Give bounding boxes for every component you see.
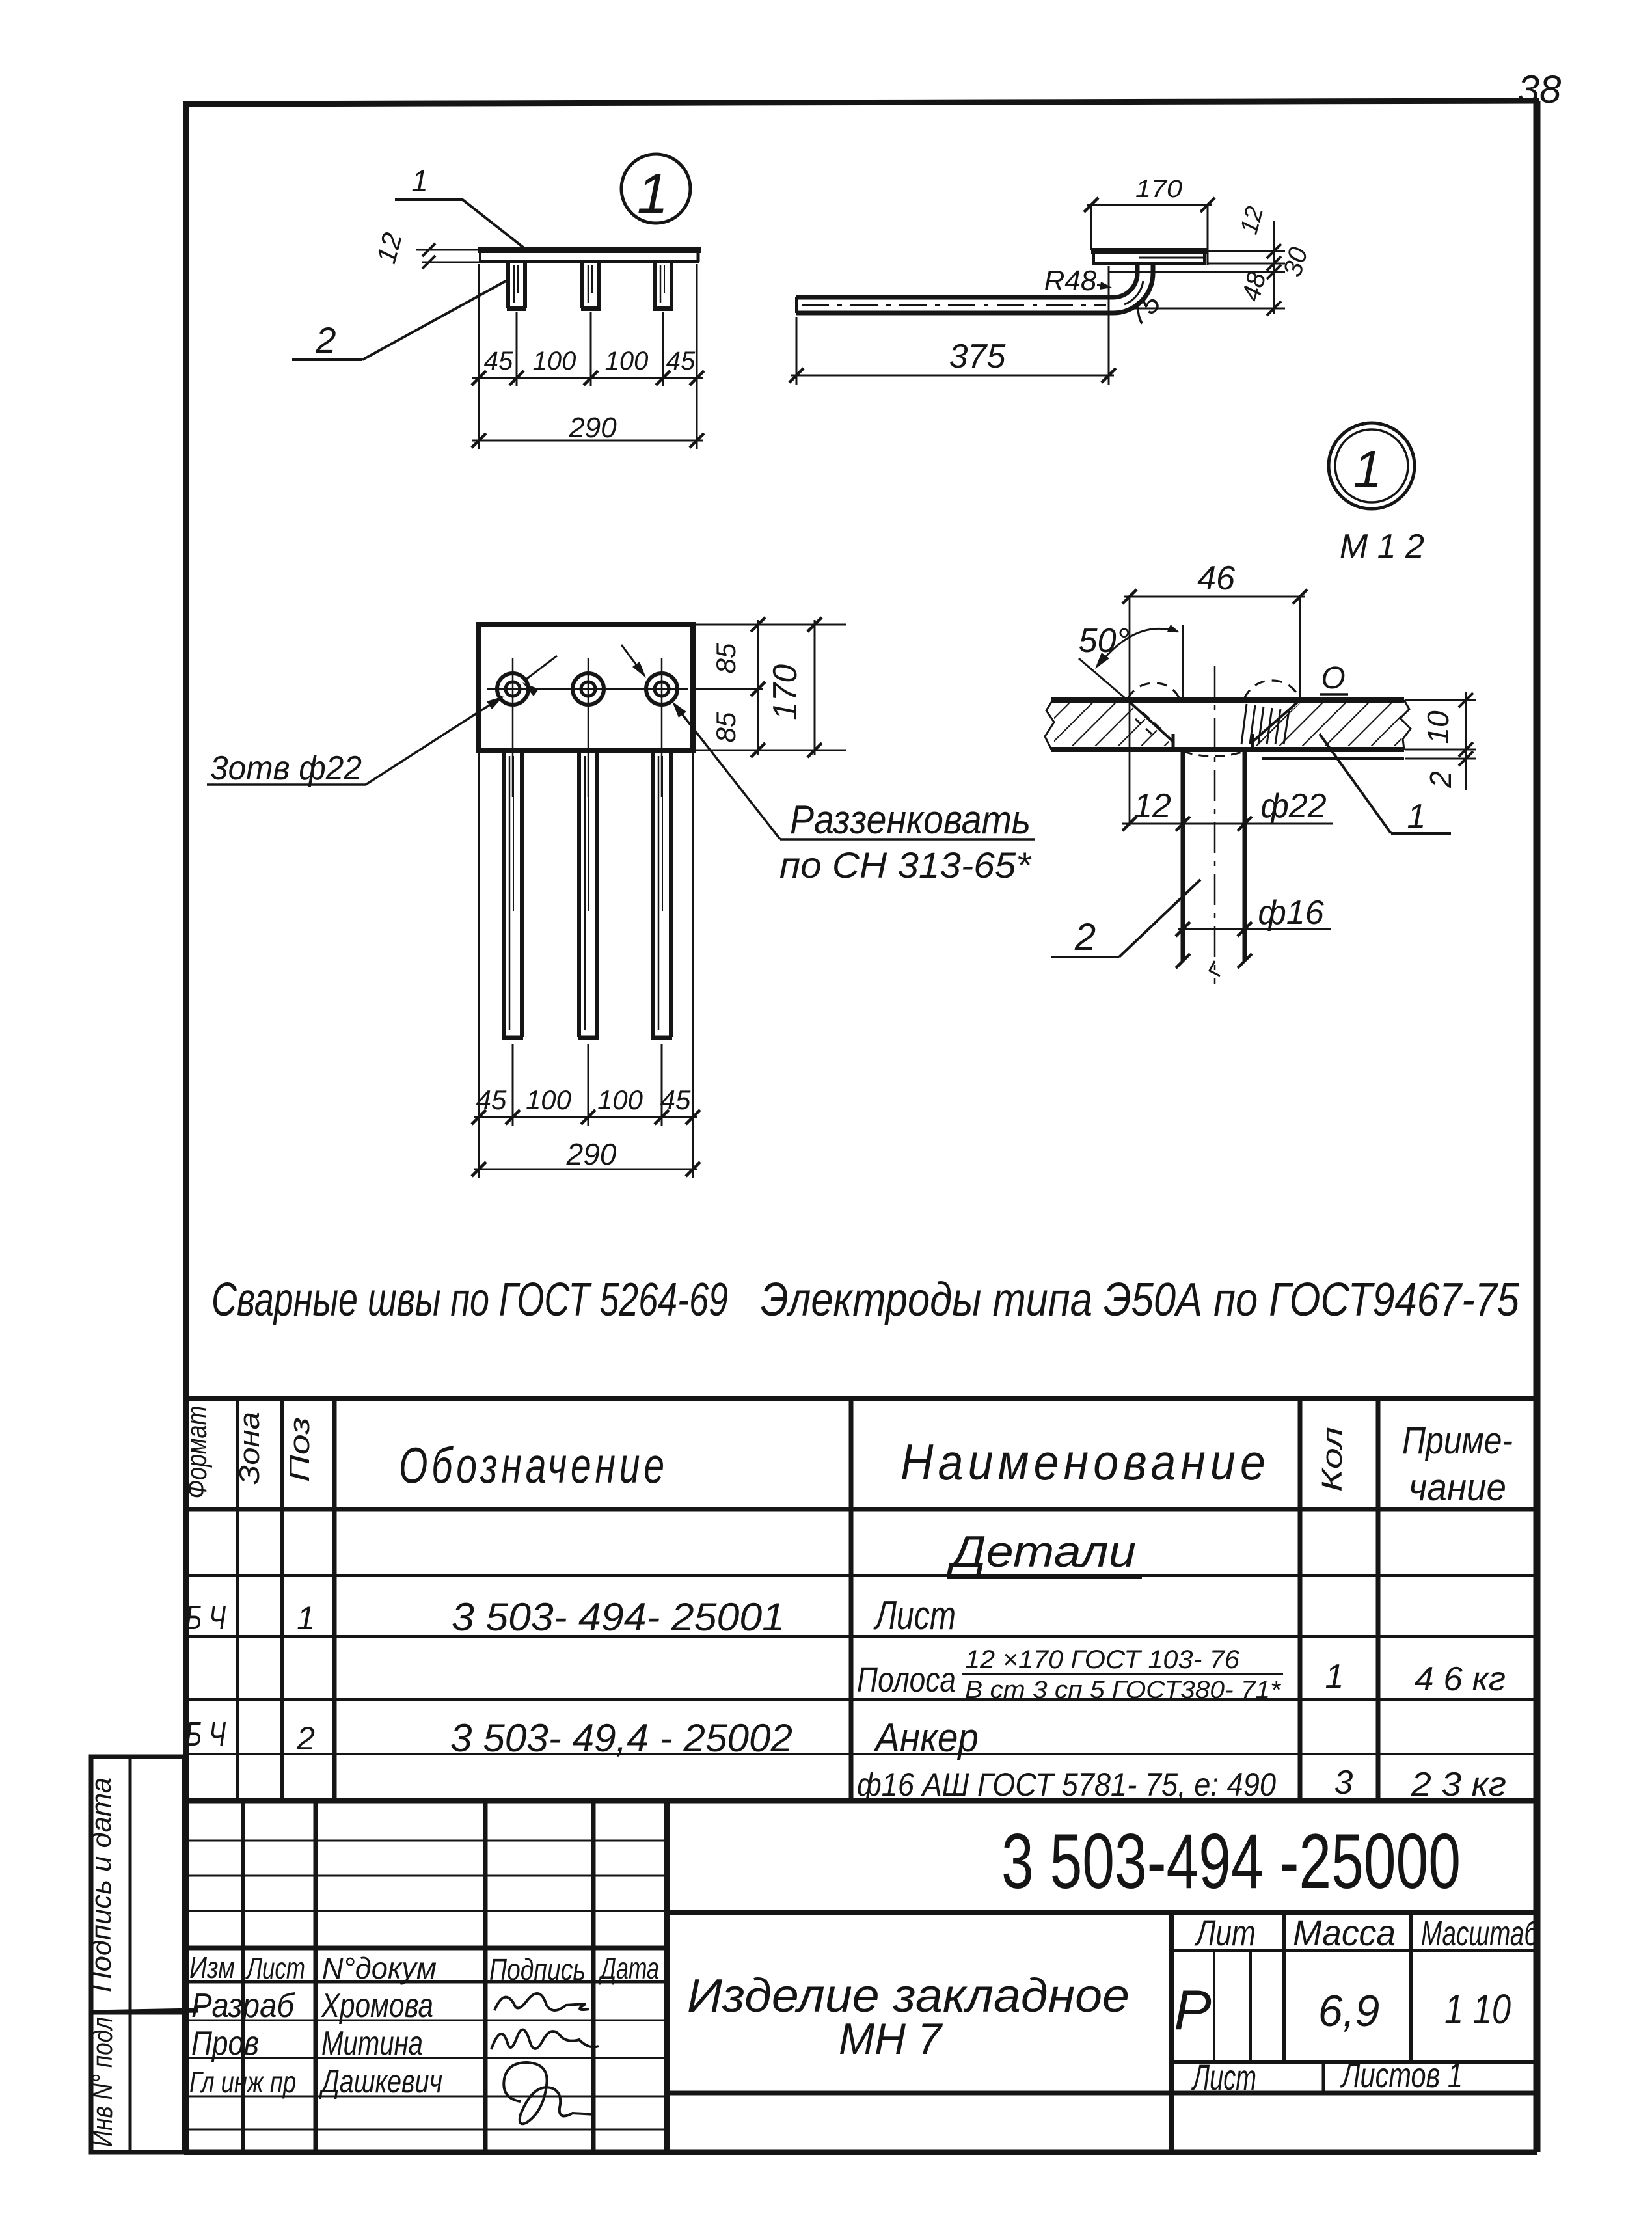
title block top line — [186, 1798, 1537, 1804]
svg-text:12: 12 — [1133, 787, 1171, 825]
svg-text:1: 1 — [297, 1600, 315, 1636]
view1 plate bottom edge — [479, 260, 699, 263]
svg-text:Б Ч: Б Ч — [185, 1599, 226, 1637]
svg-text:Подпись и дата: Подпись и дата — [85, 1777, 117, 1992]
svg-text:12 ×170 ГОСТ 103- 76: 12 ×170 ГОСТ 103- 76 — [965, 1645, 1240, 1674]
view4 plate right break mark — [1400, 700, 1411, 750]
svg-text:чание: чание — [1409, 1466, 1506, 1509]
view1 anchor rod 1 — [506, 263, 510, 308]
view2 right extension lines — [1208, 250, 1285, 252]
view4 weld bottom line 2mm — [1262, 757, 1404, 760]
svg-text:Хромова: Хромова — [321, 1987, 433, 2025]
svg-text:Сварные швы по ГОСТ 5264-69: Сварные швы по ГОСТ 5264-69 — [211, 1274, 728, 1326]
svg-text:48: 48 — [1236, 269, 1271, 304]
svg-text:2: 2 — [1074, 916, 1096, 958]
svg-text:100: 100 — [533, 347, 576, 375]
svg-text:3 503-494 -25000: 3 503-494 -25000 — [1001, 1818, 1461, 1905]
svg-text:45: 45 — [484, 347, 513, 375]
svg-text:Анкер: Анкер — [873, 1716, 979, 1761]
view3 anchor rod 3 — [651, 753, 655, 1037]
svg-text:3 503- 494- 25001: 3 503- 494- 25001 — [452, 1595, 785, 1639]
view1 lower dim extension lines — [478, 264, 480, 449]
svg-text:ф22: ф22 — [1260, 787, 1326, 825]
svg-text:Лист: Лист — [1191, 2057, 1256, 2098]
view3 hole 3 (d22) — [646, 673, 677, 705]
svg-text:375: 375 — [949, 338, 1007, 375]
svg-text:1: 1 — [1407, 798, 1426, 835]
view1 plate top edge — [478, 247, 701, 253]
view3 dim line 290 — [474, 1169, 697, 1170]
view3 right dims 85/85 — [696, 624, 821, 626]
svg-text:Поз: Поз — [284, 1417, 316, 1482]
signature Dashkevich — [504, 2062, 595, 2124]
title block header row thick line — [186, 1946, 667, 1951]
view2 dim 375 — [796, 317, 798, 385]
signature Khromova — [494, 1993, 589, 2010]
svg-text:85: 85 — [711, 643, 741, 673]
view3 countersink arrow hole3 — [621, 645, 644, 675]
svg-text:Лист: Лист — [245, 1951, 305, 1985]
svg-text:Изм: Изм — [189, 1951, 235, 1984]
svg-text:О: О — [1321, 661, 1345, 696]
view4 plate section top edge — [1051, 697, 1404, 703]
title block bottom of big number box — [667, 1910, 1537, 1915]
sidebar divider hook — [91, 2010, 198, 2012]
view4 plate left break mark — [1045, 700, 1054, 750]
svg-text:3: 3 — [1334, 1764, 1353, 1802]
title block thin revision rows — [186, 1840, 667, 1842]
svg-text:Митина: Митина — [321, 2025, 423, 2062]
svg-text:290: 290 — [568, 412, 617, 444]
svg-text:46: 46 — [1197, 560, 1235, 597]
svg-text:Электроды типа Э50А по ГОСТ946: Электроды типа Э50А по ГОСТ9467-75 — [761, 1274, 1520, 1326]
view2 rod centerline — [802, 304, 1106, 306]
svg-text:Листов 1: Листов 1 — [1340, 2056, 1463, 2095]
view3 right dim 170 — [696, 624, 846, 626]
svg-text:3 503- 49,4 - 25002: 3 503- 49,4 - 25002 — [450, 1716, 792, 1760]
svg-text:ф16: ф16 — [1258, 894, 1323, 932]
view2 right dim line 12-30-48 — [1273, 221, 1275, 314]
view3 hole 2 (d22) — [573, 673, 604, 705]
svg-text:10: 10 — [1421, 710, 1455, 744]
svg-text:Р: Р — [1174, 1979, 1211, 2042]
view1 dim line 45-100-100-45 — [472, 377, 703, 379]
view3 holes centerline horizontal — [487, 688, 688, 690]
view4 right dims 10 and 2 — [1405, 699, 1476, 701]
svg-text:2: 2 — [315, 319, 336, 360]
view1 plate left cap — [479, 247, 481, 262]
parts table header bottom line — [186, 1507, 1537, 1512]
view3 plate rectangle — [479, 625, 693, 750]
view4 hidden hole bottom dashes — [1183, 751, 1244, 757]
svg-text:2 3 кг: 2 3 кг — [1411, 1766, 1506, 1803]
svg-text:45: 45 — [476, 1085, 507, 1115]
parts table outer top line — [186, 1396, 1537, 1401]
frame border right — [1534, 101, 1541, 2152]
svg-text:Раззенковать: Раззенковать — [790, 798, 1031, 843]
frame border top — [184, 101, 1539, 104]
sidebar box Inv N podl — [91, 2012, 184, 2152]
view2 bent anchor rod — [796, 265, 1153, 313]
svg-text:Формат: Формат — [181, 1406, 213, 1499]
view3 bottom dim extension lines — [478, 753, 480, 1178]
svg-text:МН 7: МН 7 — [839, 2014, 943, 2064]
view4 weld strokes in right countersink — [1241, 704, 1247, 744]
svg-text:Гл инж пр: Гл инж пр — [189, 2065, 296, 2099]
view4 hole edge left — [1172, 734, 1175, 750]
view3 countersink arrow hole1 — [524, 656, 557, 681]
svg-text:3отв ф22: 3отв ф22 — [210, 750, 362, 787]
svg-text:1: 1 — [1325, 1658, 1344, 1695]
frame border left — [183, 101, 189, 2152]
svg-text:100: 100 — [526, 1085, 572, 1115]
view3 dim line 45-100-100-45 — [474, 1116, 697, 1118]
view4 hidden countersink arc left — [1128, 683, 1180, 699]
svg-text:2: 2 — [1424, 771, 1457, 789]
svg-text:Полоса: Полоса — [857, 1660, 956, 1699]
svg-text:Лит: Лит — [1195, 1912, 1256, 1953]
view4 countersink slope right — [1253, 700, 1300, 742]
svg-text:Б Ч: Б Ч — [185, 1716, 226, 1753]
svg-text:Дашкевич: Дашкевич — [319, 2063, 442, 2100]
leader countersink note — [674, 704, 780, 839]
view4 extension above plate — [1182, 625, 1184, 700]
svg-text:1 10: 1 10 — [1444, 1986, 1511, 2033]
svg-text:2: 2 — [296, 1720, 315, 1757]
svg-text:N°докум: N°докум — [322, 1951, 437, 1985]
svg-text:по СН 313-65*: по СН 313-65* — [779, 844, 1032, 885]
svg-text:Обозначение: Обозначение — [399, 1437, 668, 1494]
view4 countersink slope left — [1128, 700, 1173, 742]
view4 hatching right — [1253, 703, 1401, 746]
svg-text:45: 45 — [660, 1085, 691, 1115]
svg-text:Разраб: Разраб — [191, 1987, 295, 2025]
view4 dim 12 and d22 — [1122, 823, 1333, 825]
svg-text:Дата: Дата — [598, 1951, 659, 1985]
svg-text:Лист: Лист — [873, 1593, 956, 1638]
frame border bottom — [184, 2150, 1537, 2155]
svg-text:170: 170 — [766, 664, 804, 720]
svg-text:R48: R48 — [1044, 265, 1097, 297]
view4 anchor rod edges — [1181, 750, 1185, 961]
view4 rod bottom end ticks — [1176, 954, 1190, 968]
svg-text:Инв N° подл: Инв N° подл — [87, 2017, 118, 2147]
svg-text:30: 30 — [1278, 244, 1313, 279]
svg-text:85: 85 — [711, 712, 741, 742]
view2 bend highlight arc — [1124, 281, 1143, 304]
svg-text:1: 1 — [637, 163, 668, 225]
view2 plate — [1091, 248, 1207, 254]
svg-text:6,9: 6,9 — [1318, 1986, 1380, 2036]
svg-text:Масштаб: Масштаб — [1421, 1914, 1539, 1953]
view1 plate right cap — [697, 247, 700, 262]
svg-text:Кол: Кол — [1316, 1427, 1348, 1492]
sidebar box Podpis i data — [91, 1757, 184, 2012]
title block verticals left grid — [241, 1801, 245, 2152]
svg-text:45: 45 — [666, 347, 696, 375]
detail mark circle 1 (M 1:2) — [1329, 423, 1415, 509]
view1 anchor rod 2 — [580, 263, 584, 308]
svg-text:ф16 АШ ГОСТ 5781- 75, е: 490: ф16 АШ ГОСТ 5781- 75, е: 490 — [857, 1766, 1276, 1803]
view4 rod centerline dash-dot — [1214, 666, 1216, 984]
view3 anchor rod 1 — [502, 753, 506, 1037]
view3 hole 1 (d22) — [497, 673, 528, 705]
svg-text:12: 12 — [370, 230, 407, 267]
svg-text:Наименование: Наименование — [900, 1433, 1270, 1491]
parts table row lines — [186, 1574, 1537, 1577]
view1 thickness dim 12 — [416, 249, 479, 251]
svg-text:Масса: Масса — [1293, 1912, 1396, 1953]
view4 hole edge right — [1251, 734, 1254, 750]
parts table vertical lines — [236, 1399, 239, 1801]
svg-text:290: 290 — [566, 1137, 617, 1171]
view4 rod bottom centerline arrow — [1210, 961, 1220, 976]
view4 hidden countersink arc right — [1244, 681, 1300, 699]
svg-text:Пров: Пров — [191, 2025, 259, 2062]
section mark circle 1 — [621, 154, 690, 223]
svg-text:1: 1 — [1353, 440, 1383, 498]
svg-text:Зона: Зона — [234, 1412, 265, 1485]
view4 dim d16 — [1178, 928, 1331, 930]
view3 anchor rod 2 — [577, 753, 581, 1037]
title block right sub-table — [1169, 1913, 1174, 2152]
svg-text:В ст 3 сп 5 ГОСТ380- 71*: В ст 3 сп 5 ГОСТ380- 71* — [965, 1677, 1281, 1704]
svg-text:170: 170 — [1135, 176, 1182, 203]
svg-text:Детали: Детали — [946, 1527, 1136, 1576]
view4 hidden countersink dashes left funnel — [1143, 712, 1165, 733]
view1 anchor rod 3 — [653, 263, 657, 308]
view4 plate section bottom edge — [1051, 747, 1404, 752]
signature Mitina — [491, 2030, 599, 2049]
svg-text:4 6 кг: 4 6 кг — [1415, 1660, 1506, 1698]
svg-text:М 1 2: М 1 2 — [1340, 528, 1424, 565]
title block row lines — [186, 2020, 667, 2021]
view1 dim line 290 — [472, 440, 703, 442]
svg-text:Приме-: Приме- — [1402, 1420, 1513, 1462]
svg-text:1: 1 — [411, 164, 428, 198]
svg-text:Подпись: Подпись — [489, 1952, 586, 1986]
svg-text:100: 100 — [605, 347, 649, 375]
svg-text:12: 12 — [1236, 204, 1269, 237]
svg-text:100: 100 — [597, 1085, 643, 1115]
